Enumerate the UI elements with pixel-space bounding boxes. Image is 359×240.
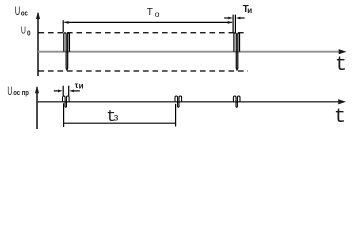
time axis arrowhead (bottom graph) [338, 99, 346, 104]
label U0 (amplitude level) [21, 24, 31, 37]
label Uoc pr (bottom axis voltage label) [7, 85, 29, 98]
dimension tau_i (top graph): second tick [234, 15, 236, 33]
label T0 (period) [147, 7, 160, 19]
svg-text:з: з [114, 112, 119, 123]
pulse 2 (top graph, double spike with undershoot) [234, 33, 240, 70]
svg-text:U: U [15, 5, 20, 18]
svg-text:ос пр: ос пр [13, 90, 29, 98]
dimension T0: left extension tick [62, 20, 64, 32]
pulse 2 (bottom graph) [175, 96, 182, 107]
label Uoc (top axis voltage label) [15, 5, 28, 18]
dimension tau_i (bottom graph): left tail and arrow [54, 90, 58, 92]
label tau_i (top graph) [243, 4, 253, 15]
svg-text:и: и [247, 6, 252, 15]
dimension T0: right extension tick [232, 15, 234, 33]
dimension t3 (delay): left extension tick [63, 103, 65, 127]
dimension tau_i (bottom graph): right arrow and tail [69, 90, 74, 93]
dashed line negative level [39, 70, 249, 72]
dimension T0: right arrowhead [228, 21, 233, 24]
pulse 1 (bottom graph, small double hump with dip) [63, 96, 70, 107]
dimension t3: line [64, 122, 176, 124]
baseline / time axis (top graph, grey) [38, 51, 340, 53]
dimension T0: line [65, 21, 232, 23]
svg-text:ос: ос [21, 10, 28, 18]
dimension tau_i (bottom graph): left tick [62, 86, 64, 97]
axis arrowhead up (top graph) [36, 12, 40, 19]
vertical axis (top graph) [37, 13, 39, 76]
time axis arrowhead (top graph) [339, 49, 347, 54]
dimension T0: left arrowhead [64, 21, 69, 24]
svg-text:о: о [155, 9, 160, 19]
svg-text:и: и [79, 81, 84, 90]
dimension t3: right extension tick [175, 104, 177, 127]
label t3 [106, 107, 119, 126]
pulse 3 (bottom graph) [233, 96, 240, 107]
svg-text:t: t [334, 106, 346, 129]
pulse 1 (top graph, double spike with undershoot) [64, 33, 70, 70]
dimension tau_i (bottom graph): right tick [68, 86, 70, 97]
vertical axis (bottom graph) [36, 87, 38, 129]
dimension tau_i (top graph): left tail and arrow [224, 17, 228, 19]
svg-text:U: U [21, 24, 26, 36]
svg-text:Т: Т [147, 7, 153, 18]
dimension tau_i (top graph): right arrow and tail [236, 17, 241, 20]
axis arrowhead up (bottom graph) [35, 86, 39, 93]
label tau_i (bottom graph) [75, 80, 84, 90]
baseline / time axis (bottom graph) [37, 101, 339, 103]
svg-text:0: 0 [27, 30, 31, 38]
dashed line U0 level [39, 32, 246, 34]
svg-text:U: U [7, 85, 12, 98]
svg-text:t: t [335, 54, 347, 77]
